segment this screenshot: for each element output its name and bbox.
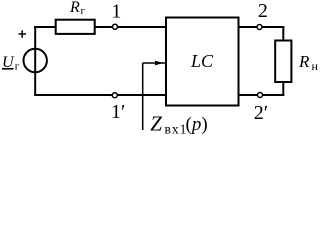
svg-text:1: 1: [111, 1, 121, 23]
wire bottom from source to box: [34, 94, 166, 96]
wire bottom-right from box to load: [239, 94, 285, 96]
svg-text:2′: 2′: [254, 102, 268, 124]
svg-text:г: г: [15, 61, 20, 73]
wire top-right from box to load: [239, 26, 285, 28]
node 2' terminal circle: [258, 93, 263, 98]
svg-text:вх1: вх1: [165, 121, 188, 136]
svg-text:R: R: [298, 52, 310, 71]
svg-text:R: R: [69, 0, 80, 16]
wire from resistor Rг to node 1: [95, 26, 166, 28]
svg-text:н: н: [312, 59, 319, 73]
svg-text:LC: LC: [190, 51, 214, 71]
two-port network box LC: [166, 18, 239, 106]
svg-text:1′: 1′: [111, 101, 125, 123]
wire arrow Zvx vertical lead: [142, 63, 144, 130]
arrowhead of Zvx pointing into box: [155, 61, 163, 66]
svg-text:г: г: [81, 5, 86, 17]
wire arrow Zvx horizontal lead: [143, 62, 166, 64]
resistor R2 (Rн) load body: [275, 41, 291, 83]
wire right vertical down to load resistor: [282, 26, 284, 42]
svg-text:2: 2: [258, 0, 268, 22]
svg-text:(p): (p): [186, 114, 208, 135]
wire top-left from source to resistor Rg: [34, 26, 57, 28]
plus sign polarity: [19, 30, 27, 38]
wire left vertical through source: [34, 26, 36, 96]
svg-text:U: U: [2, 54, 15, 71]
resistor R1 (Rг) body: [56, 20, 95, 34]
wire below load resistor: [282, 82, 284, 96]
source U circle: [24, 49, 47, 72]
node 1' terminal circle: [112, 93, 117, 98]
svg-text:Z: Z: [150, 111, 162, 135]
node 2 terminal circle: [257, 25, 262, 30]
node 1 terminal circle: [113, 24, 118, 29]
